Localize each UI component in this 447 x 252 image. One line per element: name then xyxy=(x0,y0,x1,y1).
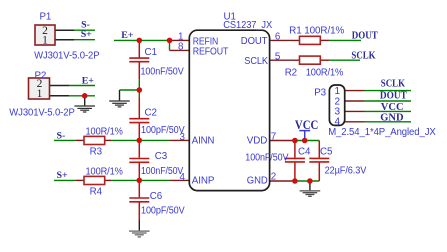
svg-text:100nF/50V: 100nF/50V xyxy=(141,67,185,78)
svg-text:AINN: AINN xyxy=(192,136,215,147)
svg-text:100nF/50V: 100nF/50V xyxy=(245,152,289,163)
svg-text:WJ301V-5.0-2P: WJ301V-5.0-2P xyxy=(9,108,75,119)
svg-text:E+: E+ xyxy=(82,75,95,86)
svg-text:R2: R2 xyxy=(285,68,297,79)
svg-text:SCLK: SCLK xyxy=(351,50,376,62)
svg-text:AINP: AINP xyxy=(192,176,215,187)
svg-text:C2: C2 xyxy=(145,107,157,118)
svg-text:C4: C4 xyxy=(298,147,311,158)
svg-text:R4: R4 xyxy=(90,187,103,198)
svg-text:VCC: VCC xyxy=(381,102,404,113)
svg-text:S-: S- xyxy=(57,130,66,141)
svg-text:P3: P3 xyxy=(314,88,326,99)
svg-text:1: 1 xyxy=(335,86,341,97)
svg-text:P2: P2 xyxy=(35,71,47,82)
svg-text:GND: GND xyxy=(380,113,404,124)
svg-text:VCC: VCC xyxy=(295,118,318,132)
svg-text:7: 7 xyxy=(271,132,276,143)
svg-text:100R/1%: 100R/1% xyxy=(306,68,344,79)
svg-text:S+: S+ xyxy=(57,170,68,181)
svg-text:1: 1 xyxy=(37,88,43,100)
svg-text:E+: E+ xyxy=(121,30,134,41)
svg-text:REFOUT: REFOUT xyxy=(193,47,229,58)
svg-text:DOUT: DOUT xyxy=(380,91,407,102)
svg-text:SCLK: SCLK xyxy=(381,79,406,90)
svg-text:1: 1 xyxy=(42,35,48,47)
svg-text:C6: C6 xyxy=(150,191,163,202)
svg-text:100R/1%: 100R/1% xyxy=(86,167,124,178)
svg-text:8: 8 xyxy=(178,41,184,52)
svg-text:C5: C5 xyxy=(320,146,333,157)
svg-text:100R/1%: 100R/1% xyxy=(86,127,124,138)
svg-text:WJ301V-5.0-2P: WJ301V-5.0-2P xyxy=(34,51,100,62)
svg-text:R1 100R/1%: R1 100R/1% xyxy=(289,26,344,37)
svg-text:C1: C1 xyxy=(145,47,157,58)
svg-text:R3: R3 xyxy=(90,147,103,158)
svg-text:100pF/50V: 100pF/50V xyxy=(141,125,185,136)
svg-text:DOUT: DOUT xyxy=(352,29,379,41)
svg-text:4: 4 xyxy=(335,117,341,128)
svg-text:M_2.54_1*4P_Angled_JX: M_2.54_1*4P_Angled_JX xyxy=(328,127,436,138)
svg-text:SCLK: SCLK xyxy=(244,56,268,67)
svg-text:S+: S+ xyxy=(81,29,92,40)
svg-text:DOUT: DOUT xyxy=(241,36,268,47)
svg-text:100nF/50V: 100nF/50V xyxy=(141,166,184,177)
svg-text:P1: P1 xyxy=(40,12,52,23)
svg-text:5: 5 xyxy=(275,51,281,62)
svg-text:VDD: VDD xyxy=(247,135,267,146)
svg-text:22µF/6.3V: 22µF/6.3V xyxy=(325,165,367,176)
svg-text:6: 6 xyxy=(275,32,281,43)
svg-text:C3: C3 xyxy=(155,151,168,162)
svg-text:GND: GND xyxy=(247,175,268,186)
svg-text:CS1237_JX: CS1237_JX xyxy=(223,20,272,31)
svg-text:100pF/50V: 100pF/50V xyxy=(141,205,185,216)
svg-text:2: 2 xyxy=(271,172,276,183)
